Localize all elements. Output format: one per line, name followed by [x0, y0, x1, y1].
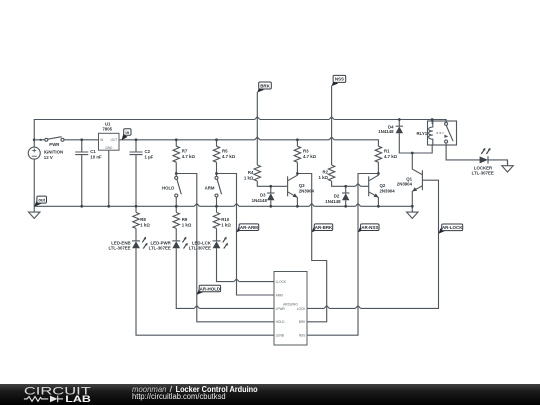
svg-text:LENB: LENB [276, 334, 284, 338]
svg-text:in: in [125, 130, 129, 135]
svg-text:4.7 kΩ: 4.7 kΩ [303, 154, 317, 159]
svg-text:LOCK: LOCK [297, 307, 307, 311]
svg-text:1 kΩ: 1 kΩ [140, 223, 150, 228]
svg-text:out: out [38, 197, 45, 202]
svg-text:LED-ENB: LED-ENB [111, 240, 130, 245]
svg-text:HOLD: HOLD [162, 186, 174, 191]
svg-text:AR-LOCK: AR-LOCK [442, 225, 463, 230]
svg-text:HOLD: HOLD [276, 320, 286, 324]
svg-text:Q2: Q2 [380, 183, 386, 188]
svg-text:4.7 kΩ: 4.7 kΩ [182, 154, 196, 159]
svg-text:LTL-307EE: LTL-307EE [149, 246, 171, 251]
svg-text:4.7 kΩ: 4.7 kΩ [222, 154, 236, 159]
svg-text:C2: C2 [145, 149, 151, 154]
svg-text:RLY1: RLY1 [416, 131, 427, 136]
svg-text:R9: R9 [182, 217, 188, 222]
svg-text:D2: D2 [334, 193, 340, 198]
svg-text:http://circuitlab.com/cbutksd: http://circuitlab.com/cbutksd [132, 392, 226, 401]
svg-text:LTL-307EE: LTL-307EE [472, 170, 494, 175]
svg-text:1N4148: 1N4148 [325, 199, 341, 204]
svg-text:R8: R8 [140, 217, 146, 222]
svg-text:R10: R10 [221, 217, 230, 222]
svg-text:ARDUINO: ARDUINO [283, 303, 298, 307]
svg-text:OUT: OUT [110, 138, 118, 142]
svg-text:10 nF: 10 nF [90, 155, 102, 160]
svg-text:12 V: 12 V [44, 155, 53, 160]
svg-text:1 kΩ: 1 kΩ [244, 176, 254, 181]
svg-text:LTL-307EE: LTL-307EE [189, 246, 211, 251]
svg-text:LED-PWR: LED-PWR [151, 240, 172, 245]
svg-text:NSS: NSS [335, 77, 344, 82]
svg-text:PWR: PWR [49, 142, 60, 147]
svg-text:BRK: BRK [260, 83, 270, 88]
svg-text:LPWR: LPWR [276, 307, 286, 311]
svg-text:R3: R3 [303, 149, 309, 154]
svg-text:1 kΩ: 1 kΩ [318, 175, 328, 180]
svg-text:LTL-307EE: LTL-307EE [108, 246, 130, 251]
svg-text:IGNITION: IGNITION [44, 149, 63, 154]
svg-text:LAB: LAB [65, 394, 91, 405]
svg-text:2N3904: 2N3904 [299, 188, 315, 193]
svg-text:R4: R4 [248, 170, 254, 175]
svg-text:2N3904: 2N3904 [380, 188, 396, 193]
svg-text:7805: 7805 [102, 126, 112, 131]
svg-text:GND: GND [105, 146, 113, 150]
svg-text:1N4148: 1N4148 [378, 129, 394, 134]
svg-text:AR-ARM: AR-ARM [240, 225, 258, 230]
svg-text:ARM: ARM [205, 185, 215, 190]
svg-text:BRK: BRK [299, 320, 306, 324]
svg-text:R2: R2 [322, 170, 328, 175]
svg-text:R1: R1 [384, 149, 390, 154]
svg-text:1 µF: 1 µF [145, 155, 154, 160]
svg-text:LED-LCK: LED-LCK [192, 240, 212, 245]
svg-text:1 kΩ: 1 kΩ [182, 223, 192, 228]
svg-text:2N3904: 2N3904 [397, 181, 413, 186]
svg-text:LLOCK: LLOCK [276, 280, 287, 284]
svg-text:1 kΩ: 1 kΩ [221, 223, 231, 228]
svg-text:ARM: ARM [276, 293, 283, 297]
svg-text:4.7 kΩ: 4.7 kΩ [384, 154, 398, 159]
svg-text:AR-NSS: AR-NSS [361, 225, 378, 230]
svg-text:D3: D3 [260, 192, 266, 197]
svg-text:NSS: NSS [299, 334, 306, 338]
svg-text:C1: C1 [90, 149, 96, 154]
svg-text:AR-BRK: AR-BRK [315, 225, 333, 230]
svg-text:Q3: Q3 [299, 183, 305, 188]
svg-text:AR-HOLD: AR-HOLD [200, 286, 221, 291]
svg-text:1N4148: 1N4148 [252, 198, 268, 203]
svg-text:R5: R5 [222, 149, 228, 154]
svg-text:R7: R7 [182, 149, 188, 154]
